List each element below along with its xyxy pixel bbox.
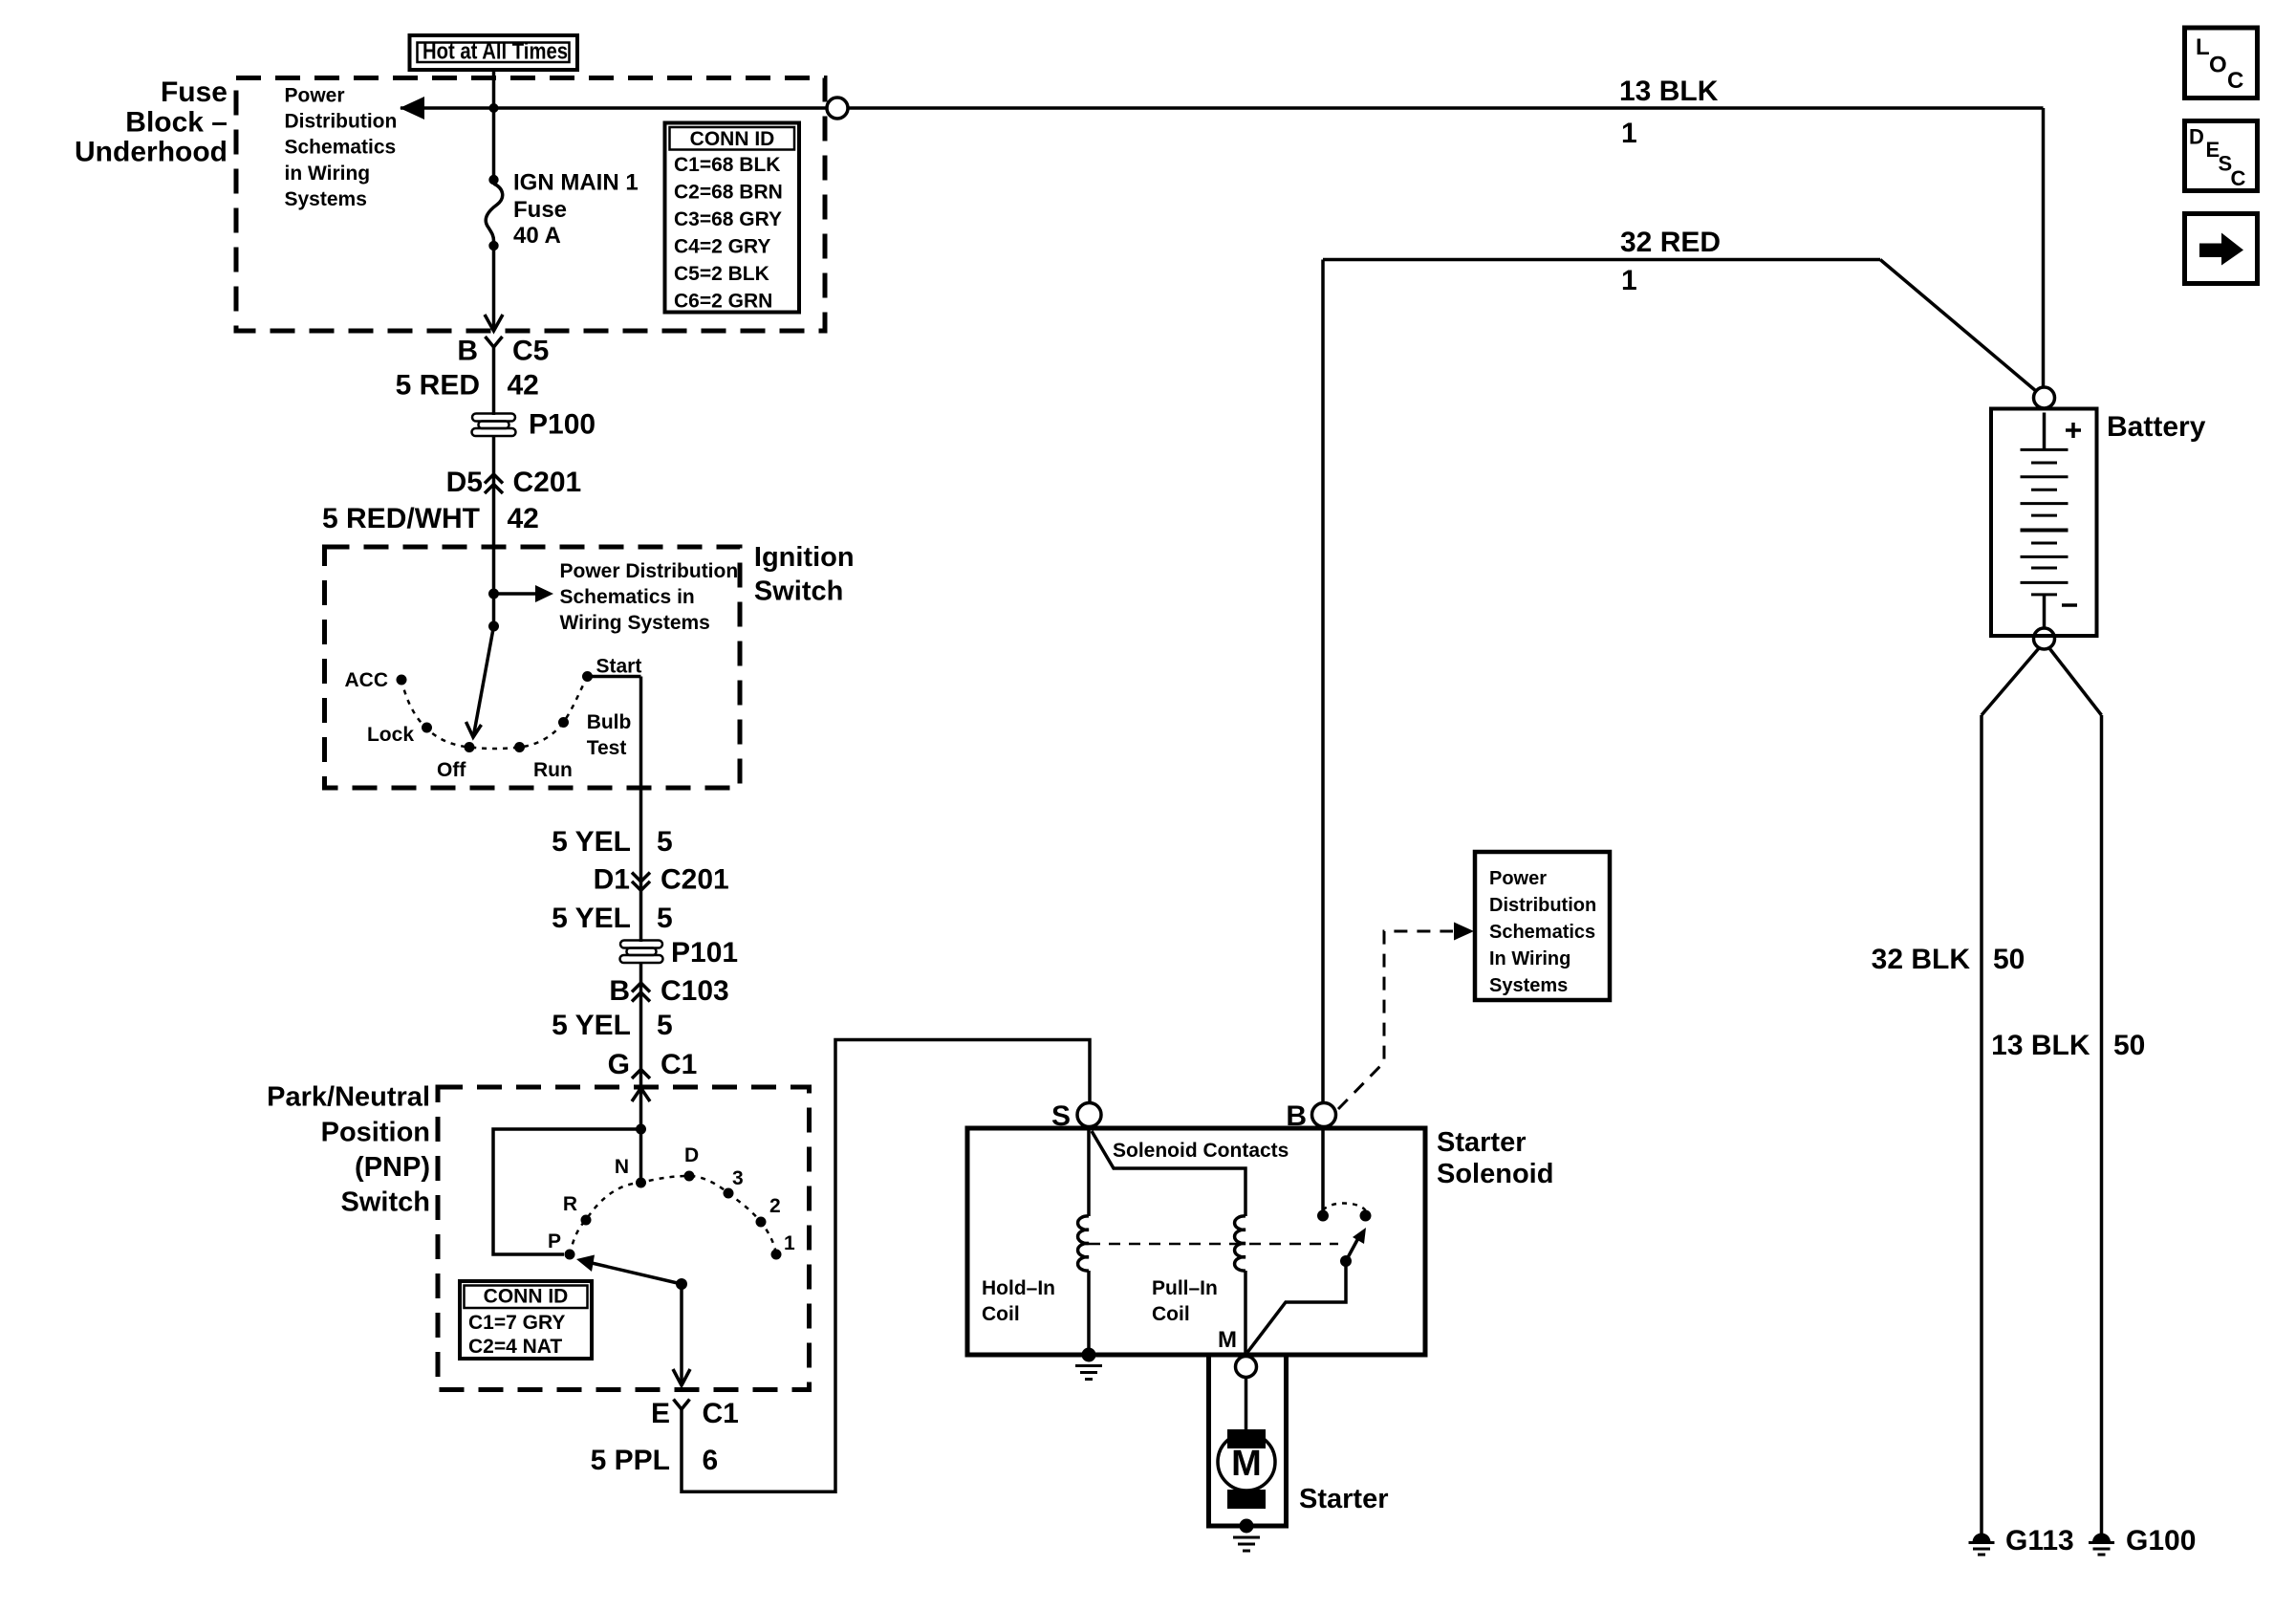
svg-text:C1=68 BLK: C1=68 BLK [674, 154, 780, 176]
svg-text:32 BLK: 32 BLK [1872, 944, 1971, 975]
svg-text:Power: Power [285, 85, 345, 107]
svg-text:E: E [651, 1398, 670, 1429]
svg-text:Hold–In: Hold–In [982, 1277, 1055, 1299]
svg-text:40 A: 40 A [513, 223, 561, 249]
svg-text:5 PPL: 5 PPL [591, 1445, 670, 1476]
svg-text:Lock: Lock [367, 724, 414, 746]
svg-text:Switch: Switch [341, 1187, 430, 1218]
svg-text:C: C [2231, 166, 2246, 190]
svg-text:Off: Off [437, 759, 466, 781]
svg-text:in Wiring: in Wiring [285, 163, 371, 185]
svg-text:C1: C1 [703, 1398, 739, 1429]
svg-text:13 BLK: 13 BLK [1991, 1030, 2090, 1061]
svg-text:Switch: Switch [754, 577, 843, 607]
svg-text:50: 50 [1993, 944, 2025, 975]
svg-text:C2=4 NAT: C2=4 NAT [468, 1336, 562, 1358]
svg-text:M: M [1218, 1327, 1237, 1353]
svg-text:Start: Start [596, 656, 642, 678]
svg-text:C201: C201 [661, 864, 729, 896]
svg-text:C6=2 GRN: C6=2 GRN [674, 291, 772, 313]
svg-text:M: M [1231, 1444, 1262, 1484]
svg-text:N: N [615, 1156, 629, 1178]
svg-text:G113: G113 [2005, 1525, 2074, 1557]
svg-text:1: 1 [1621, 118, 1637, 149]
svg-text:C3=68 GRY: C3=68 GRY [674, 208, 782, 230]
svg-text:Power Distribution: Power Distribution [560, 560, 739, 582]
svg-text:D: D [684, 1144, 699, 1166]
svg-text:42: 42 [508, 369, 539, 401]
svg-text:Starter: Starter [1299, 1484, 1389, 1514]
svg-text:O: O [2209, 53, 2227, 78]
svg-text:G: G [608, 1049, 630, 1080]
svg-text:Coil: Coil [1152, 1303, 1190, 1325]
svg-text:ACC: ACC [345, 669, 389, 691]
svg-text:(PNP): (PNP) [355, 1152, 430, 1183]
svg-text:B: B [1286, 1100, 1307, 1132]
svg-text:D5: D5 [446, 467, 483, 498]
svg-text:C5=2 BLK: C5=2 BLK [674, 263, 769, 285]
svg-text:Underhood: Underhood [75, 137, 227, 168]
svg-text:C4=2 GRY: C4=2 GRY [674, 236, 770, 258]
svg-text:Distribution: Distribution [1489, 895, 1596, 916]
svg-text:42: 42 [508, 503, 539, 534]
svg-text:C5: C5 [512, 336, 549, 367]
svg-text:Run: Run [533, 759, 573, 781]
svg-text:5: 5 [657, 826, 673, 858]
svg-text:Schematics: Schematics [285, 137, 397, 159]
svg-text:5 YEL: 5 YEL [552, 826, 631, 858]
svg-text:Test: Test [587, 737, 627, 759]
svg-text:B: B [609, 975, 630, 1007]
svg-text:L: L [2196, 34, 2210, 60]
svg-text:Hot at All Times: Hot at All Times [422, 39, 568, 65]
svg-text:D: D [2189, 125, 2204, 149]
svg-text:Distribution: Distribution [285, 111, 398, 133]
svg-text:Pull–In: Pull–In [1152, 1277, 1218, 1299]
svg-text:IGN MAIN 1: IGN MAIN 1 [513, 169, 639, 195]
svg-text:C: C [2227, 68, 2243, 94]
svg-text:C103: C103 [661, 975, 729, 1007]
svg-text:Fuse: Fuse [161, 76, 227, 108]
svg-text:5: 5 [657, 903, 673, 934]
svg-text:P101: P101 [671, 937, 738, 969]
svg-text:Bulb: Bulb [587, 711, 632, 733]
svg-text:Schematics: Schematics [1489, 922, 1595, 943]
svg-text:Block –: Block – [125, 106, 227, 138]
svg-text:Systems: Systems [1489, 975, 1568, 996]
svg-text:3: 3 [732, 1167, 744, 1189]
svg-text:Solenoid Contacts: Solenoid Contacts [1113, 1140, 1289, 1162]
svg-text:Schematics in: Schematics in [560, 586, 695, 608]
svg-text:5: 5 [657, 1010, 673, 1041]
svg-text:C1: C1 [661, 1049, 697, 1080]
svg-text:1: 1 [1621, 265, 1637, 296]
svg-text:Starter: Starter [1437, 1127, 1527, 1158]
svg-text:CONN ID: CONN ID [484, 1286, 569, 1308]
svg-text:Systems: Systems [285, 188, 367, 210]
svg-text:13 BLK: 13 BLK [1619, 76, 1719, 107]
svg-text:50: 50 [2113, 1030, 2145, 1061]
svg-text:C1=7 GRY: C1=7 GRY [468, 1312, 565, 1334]
svg-text:Solenoid: Solenoid [1437, 1159, 1553, 1189]
svg-text:D1: D1 [594, 864, 630, 896]
svg-text:G100: G100 [2126, 1525, 2196, 1557]
svg-text:6: 6 [703, 1445, 719, 1476]
svg-text:Position: Position [321, 1118, 430, 1148]
svg-text:R: R [563, 1193, 577, 1215]
svg-text:In Wiring: In Wiring [1489, 948, 1570, 969]
svg-text:C2=68 BRN: C2=68 BRN [674, 182, 783, 204]
svg-text:5 YEL: 5 YEL [552, 903, 631, 934]
svg-text:5 RED/WHT: 5 RED/WHT [322, 503, 480, 534]
svg-text:C201: C201 [513, 467, 582, 498]
svg-text:Power: Power [1489, 868, 1547, 889]
svg-text:B: B [457, 336, 478, 367]
svg-text:1: 1 [784, 1232, 795, 1254]
svg-text:32 RED: 32 RED [1620, 227, 1721, 258]
svg-text:P100: P100 [529, 409, 596, 441]
svg-text:S: S [1051, 1100, 1071, 1132]
svg-text:Fuse: Fuse [513, 197, 567, 223]
svg-text:CONN ID: CONN ID [690, 128, 775, 150]
svg-text:Ignition: Ignition [754, 542, 855, 573]
svg-text:Park/Neutral: Park/Neutral [267, 1082, 430, 1113]
svg-text:P: P [548, 1230, 561, 1252]
svg-text:Coil: Coil [982, 1303, 1020, 1325]
svg-text:Wiring Systems: Wiring Systems [560, 612, 710, 634]
svg-text:5 YEL: 5 YEL [552, 1010, 631, 1041]
svg-text:5 RED: 5 RED [396, 369, 480, 401]
svg-text:Battery: Battery [2107, 411, 2206, 443]
svg-text:2: 2 [769, 1195, 781, 1217]
